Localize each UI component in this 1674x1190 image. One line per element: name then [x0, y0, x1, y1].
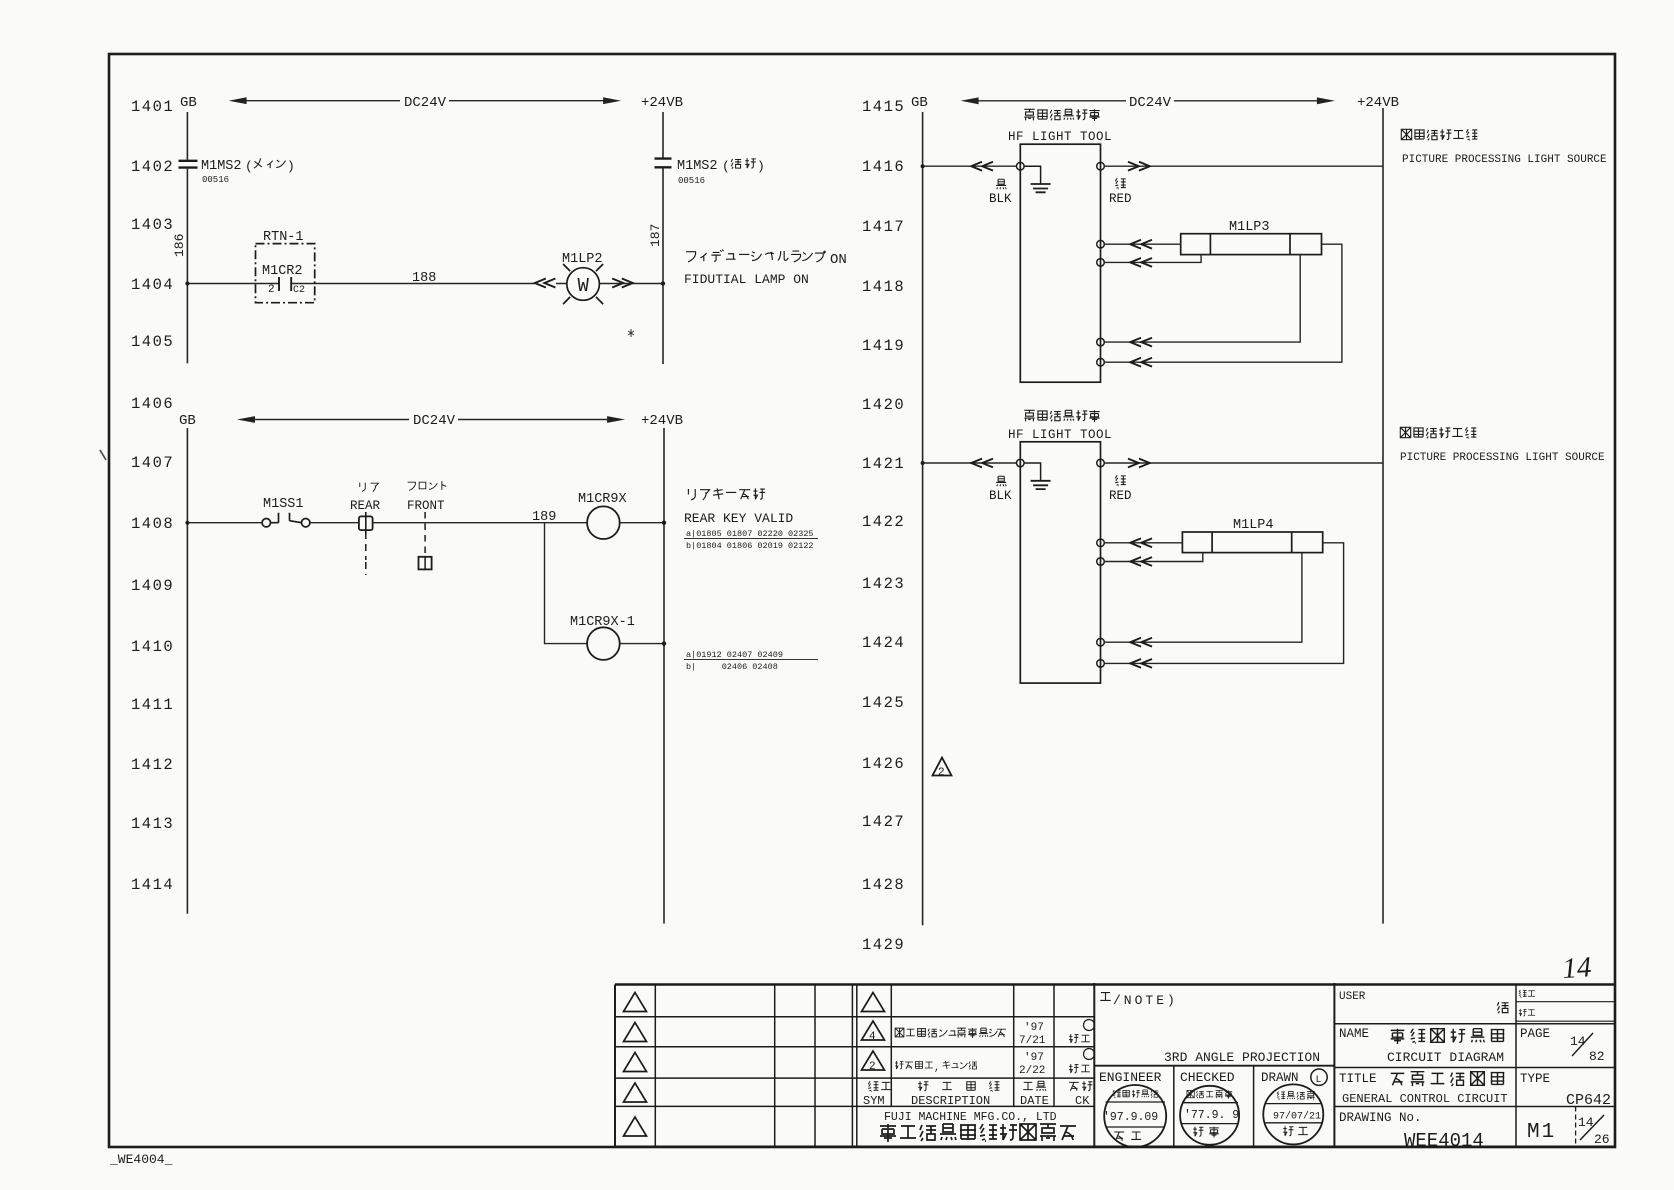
svg-text:,: ,: [934, 1063, 940, 1074]
svg-text:REAR: REAR: [350, 499, 381, 513]
sym triangle 4: [862, 1021, 885, 1043]
svg-text:ON: ON: [830, 252, 847, 268]
chevrons LP4 pin3: [1130, 638, 1152, 647]
junction dot 1421 bus: [921, 461, 925, 465]
svg-text:1429: 1429: [862, 936, 905, 954]
svg-text:M1CR2: M1CR2: [262, 264, 303, 279]
wire LP3 pin3: [1104, 255, 1300, 343]
svg-text:2: 2: [869, 1061, 876, 1073]
svg-text:1417: 1417: [862, 218, 905, 236]
svg-text:REAR KEY VALID: REAR KEY VALID: [684, 511, 793, 526]
svg-text:'77.9. 9: '77.9. 9: [1184, 1109, 1239, 1122]
svg-text:GB: GB: [180, 95, 197, 111]
svg-text:+24VB: +24VB: [641, 413, 683, 429]
terminal 2D: [1097, 660, 1105, 668]
wire GB bus left (section1): [186, 112, 188, 363]
svg-text:'97.9.09: '97.9.09: [1103, 1111, 1158, 1124]
wire LP4 pin1: [1104, 542, 1182, 544]
wire LP4 pin4: [1104, 543, 1343, 664]
svg-text:1414: 1414: [131, 876, 174, 894]
svg-text:7/21: 7/21: [1019, 1035, 1046, 1047]
wire M1CR9X-1 to bus: [620, 643, 664, 645]
chevrons RED 1: [1128, 162, 1150, 171]
wire GB bus (section3): [922, 112, 924, 925]
HF light tool 2 box: [1020, 442, 1100, 683]
junction dot 1404 right: [661, 281, 665, 285]
svg-text:C2: C2: [293, 285, 305, 296]
revision note row3 JP: [895, 1061, 977, 1074]
wire GB bus left (section2): [186, 428, 188, 914]
svg-text:NAME: NAME: [1339, 1027, 1369, 1041]
label red JP 1: [1115, 178, 1126, 189]
svg-text:1403: 1403: [131, 216, 174, 234]
wire row 1404: [187, 283, 663, 285]
svg-text:L: L: [1316, 1075, 1322, 1086]
svg-text:1409: 1409: [131, 577, 174, 595]
DC24V supply arrow line (section3): [961, 97, 1335, 104]
wire 1416 black lead: [923, 165, 1017, 167]
svg-text:(: (: [722, 159, 730, 174]
chevrons BLK 1: [971, 162, 993, 171]
revision triangle 2 at 1426: [933, 758, 952, 780]
svg-text:1421: 1421: [862, 455, 905, 473]
wire LP4 pin2: [1104, 553, 1203, 562]
svg-text:1422: 1422: [862, 513, 905, 531]
bunban JP: [1519, 990, 1535, 998]
annotation rear key valid JP: [688, 488, 765, 500]
lamp M1LP2: [563, 264, 603, 304]
note label: [1100, 993, 1178, 1008]
svg-text:DATE: DATE: [1020, 1094, 1049, 1108]
svg-text:HF LIGHT TOOL: HF LIGHT TOOL: [1008, 130, 1112, 144]
chevrons LP3 pin3: [1130, 338, 1152, 347]
svg-text:a|01912 02407 02409: a|01912 02407 02409: [686, 650, 783, 660]
key switch FRONT: [419, 512, 432, 569]
svg-text:1406: 1406: [131, 395, 174, 413]
wire +24VB bus right (section1): [662, 112, 664, 364]
address divider 2: [684, 659, 818, 661]
svg-text:97/07/21: 97/07/21: [1273, 1111, 1321, 1123]
svg-text:M1MS2: M1MS2: [677, 159, 718, 174]
terminal right 2: [1097, 459, 1105, 467]
wire LP3 pin2: [1104, 255, 1201, 263]
svg-text:82: 82: [1589, 1049, 1605, 1064]
svg-text:187: 187: [648, 224, 663, 247]
svg-text:GENERAL CONTROL CIRCUIT: GENERAL CONTROL CIRCUIT: [1342, 1092, 1508, 1106]
revision ck row3: [1069, 1049, 1094, 1073]
label rear JP: [360, 483, 379, 492]
header SYM JP: [868, 1081, 891, 1091]
label front JP: [408, 481, 447, 490]
sym triangle row1: [862, 993, 885, 1012]
svg-text:DC24V: DC24V: [413, 413, 456, 429]
svg-text:M1LP4: M1LP4: [1233, 518, 1274, 533]
dono JP: [1497, 1002, 1508, 1013]
junction dot 1416 bus: [921, 164, 925, 168]
switch M1SS1: [262, 513, 310, 527]
svg-text:4: 4: [869, 1031, 876, 1043]
svg-text:/NOTE): /NOTE): [1113, 993, 1178, 1008]
svg-text:M1: M1: [1527, 1121, 1556, 1144]
label M1MS2 (main): [201, 158, 295, 174]
stray scan mark left margin: [100, 450, 106, 460]
terminal 2A: [1097, 539, 1105, 547]
chevrons left of lamp: [535, 279, 556, 288]
svg-text:1405: 1405: [131, 333, 174, 351]
key switch REAR: [359, 512, 373, 575]
svg-text:W: W: [578, 275, 590, 297]
svg-text:'97: '97: [1024, 1022, 1044, 1034]
svg-text:CIRCUIT DIAGRAM: CIRCUIT DIAGRAM: [1387, 1050, 1504, 1065]
header DESCRIPTION JP: [918, 1081, 999, 1091]
svg-text:HF LIGHT TOOL: HF LIGHT TOOL: [1008, 428, 1112, 442]
svg-text:2/22: 2/22: [1019, 1065, 1045, 1077]
svg-text:M1MS2: M1MS2: [201, 159, 242, 174]
revision note row2 JP: [895, 1028, 1006, 1038]
revision ck row2: [1069, 1020, 1094, 1043]
ENGINEER cell: [1099, 1070, 1166, 1147]
header CK JP: [1069, 1081, 1092, 1091]
junction dot 1410 bus: [662, 641, 666, 645]
relay coil M1CR9X: [587, 506, 620, 539]
svg-text:M1SS1: M1SS1: [263, 497, 304, 512]
svg-text:1426: 1426: [862, 755, 905, 773]
svg-text:M1CR9X: M1CR9X: [578, 492, 627, 507]
label HF light tool 2 JP: [1024, 410, 1099, 422]
svg-text:): ): [287, 159, 295, 174]
relay coil M1CR9X-1: [587, 627, 620, 660]
contact M1MS2 aux: [655, 159, 672, 168]
svg-text:+24VB: +24VB: [641, 95, 683, 111]
sym triangle 2: [862, 1051, 885, 1073]
svg-text:PICTURE PROCESSING LIGHT SOURC: PICTURE PROCESSING LIGHT SOURCE: [1402, 154, 1607, 166]
svg-text:DC24V: DC24V: [1129, 95, 1172, 111]
svg-text:1419: 1419: [862, 337, 905, 355]
svg-text:_WE4004_: _WE4004_: [109, 1152, 173, 1167]
terminal 2B: [1097, 558, 1105, 566]
chevrons RED 2: [1128, 459, 1150, 468]
label black JP 2: [996, 476, 1006, 486]
svg-text:00516: 00516: [202, 175, 229, 185]
svg-text:FUJI MACHINE MFG.CO., LTD: FUJI MACHINE MFG.CO., LTD: [884, 1111, 1057, 1124]
svg-text:1416: 1416: [862, 158, 905, 176]
svg-text:1413: 1413: [131, 815, 174, 833]
sheet fraction 14/26: [1578, 1115, 1610, 1147]
terminal 1D: [1097, 358, 1105, 366]
company name JP: [880, 1124, 1076, 1142]
chevrons LP4 pin4: [1130, 659, 1152, 668]
chevrons LP3 pin4: [1130, 358, 1152, 367]
chevrons BLK 2: [971, 459, 993, 468]
header DATE JP: [1023, 1081, 1046, 1091]
wire row 1408 mid: [310, 522, 587, 524]
svg-text:2: 2: [938, 767, 945, 779]
wire 1421 black lead: [923, 462, 1017, 464]
svg-text:FRONT: FRONT: [407, 499, 445, 513]
svg-text:GB: GB: [179, 413, 196, 429]
terminal 1B: [1097, 259, 1105, 267]
svg-text:2: 2: [268, 284, 275, 296]
wire LP3 pin4: [1104, 244, 1342, 362]
svg-text:1401: 1401: [131, 98, 174, 116]
svg-text:DRAWING No.: DRAWING No.: [1339, 1111, 1422, 1125]
label red JP 2: [1115, 475, 1126, 486]
terminal 2C: [1097, 638, 1105, 646]
wire +24VB bus (section3): [1382, 108, 1384, 924]
svg-text:+24VB: +24VB: [1357, 95, 1399, 111]
svg-text:26: 26: [1594, 1132, 1610, 1147]
svg-text:TYPE: TYPE: [1520, 1072, 1550, 1086]
terminal left 1: [1017, 162, 1025, 170]
svg-text:186: 186: [172, 234, 187, 257]
svg-text:188: 188: [412, 271, 436, 286]
svg-text:RED: RED: [1109, 489, 1132, 503]
annotation fiducial lamp JP: [686, 250, 847, 268]
svg-text:ENGINEER: ENGINEER: [1099, 1070, 1162, 1085]
svg-text:PAGE: PAGE: [1520, 1027, 1550, 1041]
svg-text:1415: 1415: [862, 98, 905, 116]
svg-text:RED: RED: [1109, 192, 1132, 206]
ground symbol 1: [1024, 166, 1051, 192]
svg-text:PICTURE PROCESSING LIGHT SOURC: PICTURE PROCESSING LIGHT SOURCE: [1400, 452, 1605, 464]
terminal right 1: [1097, 162, 1105, 170]
wire M1CR9X to bus: [620, 522, 664, 524]
svg-text:WEE4014: WEE4014: [1404, 1130, 1484, 1152]
ground symbol 2: [1024, 463, 1051, 489]
relay box RTN-1 (dashed): [256, 244, 315, 303]
revision triangles left table: [624, 993, 647, 1137]
terminal 1C: [1097, 338, 1105, 346]
wire LP4 pin3: [1104, 553, 1302, 643]
svg-text:1425: 1425: [862, 694, 905, 712]
wire 1416 red lead: [1104, 165, 1383, 167]
svg-text:1420: 1420: [862, 396, 905, 414]
chevrons LP3 pin1: [1130, 240, 1152, 249]
svg-text:1428: 1428: [862, 876, 905, 894]
title JP (general control circuit): [1391, 1072, 1505, 1086]
name JP (circuit diagram): [1391, 1029, 1505, 1044]
wire 1421 red lead: [1104, 462, 1383, 464]
chevrons LP3 pin2: [1130, 258, 1152, 267]
svg-text:1423: 1423: [862, 575, 905, 593]
svg-text:DRAWN: DRAWN: [1261, 1071, 1299, 1085]
svg-text:14: 14: [1561, 951, 1592, 985]
contact M1CR2 pins: [279, 277, 291, 291]
chevrons LP4 pin2: [1130, 557, 1152, 566]
svg-text:GB: GB: [911, 95, 928, 111]
label black JP 1: [996, 179, 1006, 189]
svg-text:00516: 00516: [678, 176, 705, 186]
svg-text:SYM: SYM: [863, 1094, 885, 1108]
title block grid lines: [615, 983, 1616, 1147]
label HF light tool 1 JP: [1024, 109, 1099, 121]
svg-text:1418: 1418: [862, 278, 905, 296]
svg-text:1411: 1411: [131, 696, 174, 714]
svg-text:BLK: BLK: [989, 489, 1012, 503]
svg-text:M1CR9X-1: M1CR9X-1: [570, 615, 635, 630]
wire +24VB bus right (section2): [663, 428, 665, 924]
contact M1MS2 main: [179, 161, 198, 168]
HF light tool 1 box: [1020, 144, 1100, 382]
svg-text:1424: 1424: [862, 634, 905, 652]
wire LP3 pin1: [1104, 243, 1180, 245]
terminal left 2: [1017, 459, 1025, 467]
chevrons LP4 pin1: [1130, 538, 1152, 547]
svg-text:CP642: CP642: [1566, 1092, 1611, 1109]
lamp unit M1LP3 box: [1181, 234, 1322, 255]
label M1MS2 (aux): [677, 158, 765, 174]
wire row 1408 left: [187, 522, 262, 524]
svg-text:1402: 1402: [131, 158, 174, 176]
DC24V supply arrow line (section1): [229, 97, 621, 104]
terminal 1A: [1097, 240, 1105, 248]
seiban JP: [1519, 1009, 1535, 1016]
junction dot 1408 left bus: [185, 521, 189, 525]
svg-text:M1LP3: M1LP3: [1229, 220, 1270, 235]
wire branch at node 189: [545, 523, 588, 644]
junction dot 1408 bus: [662, 521, 666, 525]
svg-text:FIDUTIAL LAMP ON: FIDUTIAL LAMP ON: [684, 272, 809, 287]
svg-text:'97: '97: [1024, 1052, 1044, 1064]
svg-text:1427: 1427: [862, 813, 905, 831]
stray mark: [628, 329, 634, 337]
lamp unit M1LP4 box: [1182, 532, 1322, 553]
DRAWN cell: [1261, 1069, 1327, 1144]
svg-text:14: 14: [1570, 1034, 1586, 1049]
svg-text:1408: 1408: [131, 515, 174, 533]
svg-text:DESCRIPTION: DESCRIPTION: [911, 1094, 990, 1108]
page fraction 14/82: [1570, 1033, 1605, 1064]
svg-text:1407: 1407: [131, 454, 174, 472]
svg-text:CHECKED: CHECKED: [1180, 1070, 1235, 1085]
svg-text:1404: 1404: [131, 276, 174, 294]
svg-text:(: (: [245, 159, 253, 174]
svg-text:M1LP2: M1LP2: [562, 252, 603, 267]
svg-text:3RD ANGLE PROJECTION: 3RD ANGLE PROJECTION: [1164, 1050, 1320, 1065]
svg-text:BLK: BLK: [989, 192, 1012, 206]
CHECKED cell: [1180, 1070, 1239, 1145]
svg-text:b|01804 01806 02019 02122: b|01804 01806 02019 02122: [686, 541, 814, 551]
svg-text:): ): [757, 159, 765, 174]
annotation light source 1 JP: [1401, 129, 1477, 140]
svg-text:DC24V: DC24V: [404, 95, 447, 111]
annotation light source 2 JP: [1400, 427, 1476, 438]
svg-text:USER: USER: [1339, 991, 1366, 1003]
svg-text:CK: CK: [1075, 1094, 1090, 1108]
chevrons right of lamp: [612, 279, 633, 288]
svg-text:b| 02406 02408: b| 02406 02408: [686, 662, 778, 672]
svg-text:TITLE: TITLE: [1339, 1072, 1377, 1086]
junction dot 1404 left: [185, 282, 189, 286]
address divider: [684, 538, 818, 540]
DC24V supply arrow line (section2): [237, 416, 625, 423]
svg-text:a|01805 01807 02220 02325: a|01805 01807 02220 02325: [686, 529, 814, 539]
svg-text:1412: 1412: [131, 756, 174, 774]
svg-text:1410: 1410: [131, 638, 174, 656]
